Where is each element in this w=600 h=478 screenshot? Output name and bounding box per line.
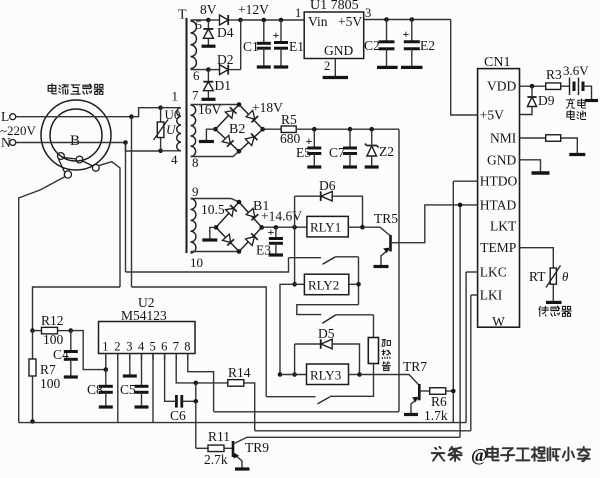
svg-text:5: 5 xyxy=(150,340,156,354)
wire +5V down to CN1 xyxy=(451,20,478,116)
svg-text:D5: D5 xyxy=(318,326,335,341)
transformer secondary winding 9-10 xyxy=(191,199,196,254)
riser to LKI xyxy=(470,295,472,431)
wire 10.5 winding top xyxy=(191,199,240,203)
bridge rectifier B2 xyxy=(215,105,262,152)
svg-text:RLY3: RLY3 xyxy=(310,368,341,383)
bus L to relay contact 3 xyxy=(132,287,267,397)
svg-text:RLY1: RLY1 xyxy=(310,220,341,235)
svg-text:+14.6V: +14.6V xyxy=(261,209,302,224)
svg-text:@: @ xyxy=(471,445,488,465)
wire RLY2-right to contact2 xyxy=(297,305,359,315)
svg-text:7: 7 xyxy=(173,340,179,354)
svg-text:1: 1 xyxy=(102,340,108,354)
svg-text:L: L xyxy=(1,109,9,124)
wire N to varistor bottom xyxy=(126,143,161,152)
resistor R11 2.7k xyxy=(208,445,224,452)
svg-text:100: 100 xyxy=(40,376,61,391)
resistor R12 100 xyxy=(30,328,35,333)
B2 minus to ground xyxy=(206,129,215,140)
svg-text:B: B xyxy=(70,133,80,149)
ground xyxy=(323,76,348,79)
bus toroid to R12 xyxy=(33,287,121,331)
svg-text:θ: θ xyxy=(562,269,569,284)
transistor TR5 xyxy=(389,235,392,252)
relay contact 3 xyxy=(318,397,331,404)
ground xyxy=(202,238,217,241)
resistor R3 xyxy=(546,83,561,90)
wires varistor to primary xyxy=(161,107,181,109)
wire N down xyxy=(125,143,127,273)
ground xyxy=(64,375,78,378)
ground xyxy=(199,140,214,143)
transistor TR9 xyxy=(232,441,235,457)
svg-text:8: 8 xyxy=(192,155,199,170)
connector CN1 xyxy=(478,69,520,328)
capacitor E1 xyxy=(280,20,282,43)
ground xyxy=(274,65,288,68)
svg-text:GND: GND xyxy=(487,152,516,167)
svg-text:R14: R14 xyxy=(228,365,251,380)
+12V rail xyxy=(241,19,305,21)
relay RLY2 xyxy=(292,282,297,287)
svg-text:W: W xyxy=(492,314,505,329)
svg-text:D1: D1 xyxy=(215,78,232,93)
svg-text:B2: B2 xyxy=(229,122,245,137)
pin3 ground xyxy=(129,354,131,377)
svg-text:10.5: 10.5 xyxy=(201,202,225,217)
svg-text:4: 4 xyxy=(138,340,145,354)
transformer T core xyxy=(186,18,188,253)
toroid sense winding loops xyxy=(58,153,65,160)
relay contact 1 xyxy=(289,257,322,259)
diode D6 xyxy=(295,195,321,197)
diode D1 xyxy=(207,70,209,82)
svg-text:+5V: +5V xyxy=(480,108,504,123)
svg-text:NMI: NMI xyxy=(490,131,517,146)
op-amp U2 M54123 xyxy=(99,322,196,354)
svg-text:R11: R11 xyxy=(208,429,230,444)
battery label xyxy=(567,99,575,108)
svg-text:HTAD: HTAD xyxy=(480,197,517,212)
svg-text:C2: C2 xyxy=(364,38,380,53)
svg-text:3: 3 xyxy=(365,6,371,20)
+14.6V rail xyxy=(262,226,307,228)
transformer secondary winding 7-8 16V xyxy=(191,105,196,157)
bridge rectifier B1 xyxy=(216,202,262,252)
N terminal xyxy=(10,140,16,146)
pin1 wire xyxy=(105,354,107,370)
heater 加热管 xyxy=(368,338,378,364)
U1 gnd pin xyxy=(334,59,336,77)
svg-text:RT: RT xyxy=(529,269,546,284)
TR9 emitter xyxy=(233,453,242,469)
svg-text:3.6V: 3.6V xyxy=(563,63,589,78)
svg-text:+12V: +12V xyxy=(238,2,269,17)
svg-text:Vin: Vin xyxy=(308,14,328,29)
B1 minus to ground xyxy=(210,227,216,239)
wire 16V top xyxy=(191,104,240,106)
clamp diode at 8V node to ground xyxy=(207,20,209,29)
heater top wire xyxy=(373,315,375,338)
TR7 emitter xyxy=(411,397,419,414)
wire to TR5 base xyxy=(363,227,391,235)
sensor label xyxy=(539,306,549,316)
svg-text:10: 10 xyxy=(190,255,203,270)
ground xyxy=(585,99,598,102)
svg-text:T: T xyxy=(178,8,187,23)
svg-text:R6: R6 xyxy=(431,394,447,409)
capacitor C8 xyxy=(105,370,107,387)
svg-text:8V: 8V xyxy=(200,2,217,17)
pin7 wire to R14 xyxy=(176,354,228,383)
svg-text:+5V: +5V xyxy=(338,14,362,29)
svg-text:HTDO: HTDO xyxy=(480,174,518,189)
+14.6V node xyxy=(292,225,297,230)
CN1 stub HTDO xyxy=(453,180,477,182)
svg-text:C1: C1 xyxy=(243,39,259,54)
wire RLY2-left down to RLY3-left xyxy=(280,284,295,374)
svg-text:C8: C8 xyxy=(87,382,103,397)
zener Z2 xyxy=(371,129,373,145)
riser to HTDO xyxy=(452,181,454,422)
wire winding5 to 8V node xyxy=(191,19,209,21)
svg-text:D2: D2 xyxy=(217,52,234,67)
svg-text:+18V: +18V xyxy=(252,100,283,115)
resistor R7 100 xyxy=(32,331,34,359)
svg-text:R12: R12 xyxy=(41,313,64,328)
current transformer label xyxy=(48,84,56,94)
svg-text:1: 1 xyxy=(295,6,301,20)
TR7 collector + R6 xyxy=(419,390,429,392)
svg-text:D4: D4 xyxy=(217,25,234,40)
svg-text:R5: R5 xyxy=(281,112,297,127)
pin6 wire to C6 xyxy=(165,354,176,402)
wire L to varistor top xyxy=(132,108,161,117)
svg-text:C7: C7 xyxy=(329,145,345,160)
CN1 stub LKC xyxy=(466,271,478,273)
diode D5 xyxy=(294,344,296,375)
capacitor C6 xyxy=(175,395,178,408)
bus N to relay contact 1 xyxy=(126,258,289,272)
ground xyxy=(532,171,550,175)
svg-text:+: + xyxy=(273,28,280,42)
riser to LKC xyxy=(465,272,467,423)
bus ground R7/pin2/pin5 to LKC riser xyxy=(19,422,466,424)
svg-text:Z2: Z2 xyxy=(379,144,394,159)
varistor U0 xyxy=(158,105,163,110)
relay RLY1 xyxy=(307,216,348,237)
wire R12 node to U2 pin1 xyxy=(71,331,106,370)
capacitor E3 xyxy=(275,227,277,238)
svg-text:3: 3 xyxy=(126,340,132,354)
CN1 stub LKI xyxy=(471,294,478,296)
svg-text:E1: E1 xyxy=(289,39,304,54)
svg-text:TR9: TR9 xyxy=(245,440,269,455)
svg-text:U: U xyxy=(166,122,177,137)
svg-text:100: 100 xyxy=(43,332,64,347)
watermark xyxy=(432,447,445,461)
ground xyxy=(202,45,216,48)
capacitor C5 on pin4 xyxy=(141,354,143,387)
wire L xyxy=(16,116,132,118)
resistor R5 680 xyxy=(263,128,282,130)
wire winding6 line xyxy=(191,69,209,71)
ground xyxy=(307,165,321,168)
svg-text:7: 7 xyxy=(192,88,199,103)
R14 down to LKI bus xyxy=(244,383,255,431)
transistor TR7 xyxy=(418,384,421,400)
+12V node xyxy=(238,18,243,23)
svg-text:E5: E5 xyxy=(296,145,311,160)
pin5 wire down to bus xyxy=(152,354,154,423)
transformer primary winding 1-4 xyxy=(177,108,181,151)
+18V supply wire down xyxy=(398,129,400,411)
node 8V xyxy=(206,18,211,23)
svg-text:5: 5 xyxy=(196,17,203,32)
L terminal xyxy=(10,114,16,120)
wire to R11 xyxy=(196,447,208,449)
svg-text:+: + xyxy=(403,27,410,41)
svg-text:LKC: LKC xyxy=(480,265,507,280)
svg-text:LKT: LKT xyxy=(490,219,517,234)
ground xyxy=(404,413,418,416)
svg-text:C5: C5 xyxy=(120,382,136,397)
ground xyxy=(569,153,585,156)
relay RLY3 xyxy=(278,372,283,377)
ground xyxy=(235,467,250,470)
svg-text:U0: U0 xyxy=(165,107,181,122)
capacitor C7 xyxy=(349,129,351,148)
svg-text:GND: GND xyxy=(324,43,353,58)
svg-text:U1 7805: U1 7805 xyxy=(310,0,359,13)
toroid right lead xyxy=(99,162,120,287)
ground xyxy=(343,165,357,168)
svg-text:D6: D6 xyxy=(319,178,336,193)
wire D2 up to +12V xyxy=(240,20,242,70)
wire contact1 to RLY2 right xyxy=(358,257,360,305)
battery 3.6V xyxy=(569,78,571,96)
svg-text:R7: R7 xyxy=(40,362,56,377)
TEMP to RT xyxy=(520,248,554,268)
wire 16V bottom xyxy=(191,151,240,156)
wire winding bottom xyxy=(191,251,240,253)
ground xyxy=(365,165,379,168)
capacitor C1 xyxy=(263,20,265,43)
node link C6/R11 xyxy=(195,383,197,401)
bus pin8 to +18V xyxy=(214,411,399,413)
resistor R14 xyxy=(228,380,244,387)
svg-text:2: 2 xyxy=(324,59,330,73)
svg-text:E2: E2 xyxy=(420,38,435,53)
svg-text:2.7k: 2.7k xyxy=(204,452,228,467)
svg-text:TR5: TR5 xyxy=(374,211,398,226)
svg-text:CN1: CN1 xyxy=(484,55,510,70)
ground xyxy=(401,66,423,69)
node 6 xyxy=(206,67,211,72)
svg-text:2: 2 xyxy=(114,340,120,354)
svg-text:+: + xyxy=(268,225,275,239)
toroid left lead xyxy=(19,177,65,423)
TR5 collector to HTAD xyxy=(391,205,478,243)
ground xyxy=(257,65,271,68)
diode D2 xyxy=(208,69,219,71)
capacitor E5 xyxy=(313,129,315,148)
svg-text:M54123: M54123 xyxy=(121,308,167,323)
current transformer B toroid xyxy=(41,100,111,170)
svg-text:RLY2: RLY2 xyxy=(308,278,339,293)
svg-text:TEMP: TEMP xyxy=(480,240,516,255)
capacitor C4 xyxy=(70,331,72,352)
bus R14 to LKI riser xyxy=(255,430,471,432)
svg-text:1.7k: 1.7k xyxy=(424,408,448,423)
svg-text:8: 8 xyxy=(184,340,190,354)
transformer secondary winding 5-6 xyxy=(191,21,197,69)
svg-text:R3: R3 xyxy=(546,67,562,82)
pin2 wire down to bus xyxy=(117,354,119,423)
ground xyxy=(99,405,113,408)
svg-text:9: 9 xyxy=(192,184,199,199)
svg-text:TR7: TR7 xyxy=(403,359,427,374)
thermistor RT xyxy=(550,268,556,284)
capacitor C2 xyxy=(386,20,388,42)
riser to HTAD xyxy=(459,205,461,437)
svg-text:4: 4 xyxy=(171,152,178,167)
ground xyxy=(269,253,283,256)
svg-text:D9: D9 xyxy=(538,93,555,108)
svg-text:VDD: VDD xyxy=(487,79,516,94)
wire RLY3 to TR7 base xyxy=(360,375,419,386)
wire L down xyxy=(131,117,133,287)
TR9 collector line to HTAD riser xyxy=(233,437,460,444)
GND pin wire xyxy=(520,160,541,173)
capacitor E2 xyxy=(411,20,413,42)
svg-text:6: 6 xyxy=(161,340,167,354)
wire N xyxy=(16,142,126,144)
TR5 emitter xyxy=(381,248,391,266)
diode D4 xyxy=(208,19,219,21)
relay vertical xyxy=(294,196,296,284)
diode D9 xyxy=(531,86,533,96)
+5V rail xyxy=(364,19,451,21)
ground xyxy=(377,66,398,69)
svg-text:680: 680 xyxy=(280,131,301,146)
ground xyxy=(546,301,562,304)
heater bottom to contact3 xyxy=(330,364,374,397)
svg-text:1: 1 xyxy=(172,89,179,104)
svg-text:C4: C4 xyxy=(53,347,69,362)
ground xyxy=(135,405,149,408)
ground xyxy=(202,98,216,101)
NMI resistor xyxy=(520,137,546,139)
pin8 wire to +18V bus xyxy=(188,354,214,412)
ground xyxy=(374,265,389,268)
relay contact 2 xyxy=(322,315,336,323)
svg-text:N: N xyxy=(1,135,11,150)
svg-text:LKI: LKI xyxy=(480,288,503,303)
VDD wire xyxy=(520,85,546,87)
svg-text:C6: C6 xyxy=(170,408,186,423)
op-amp U1 7805 regulator xyxy=(304,12,364,59)
